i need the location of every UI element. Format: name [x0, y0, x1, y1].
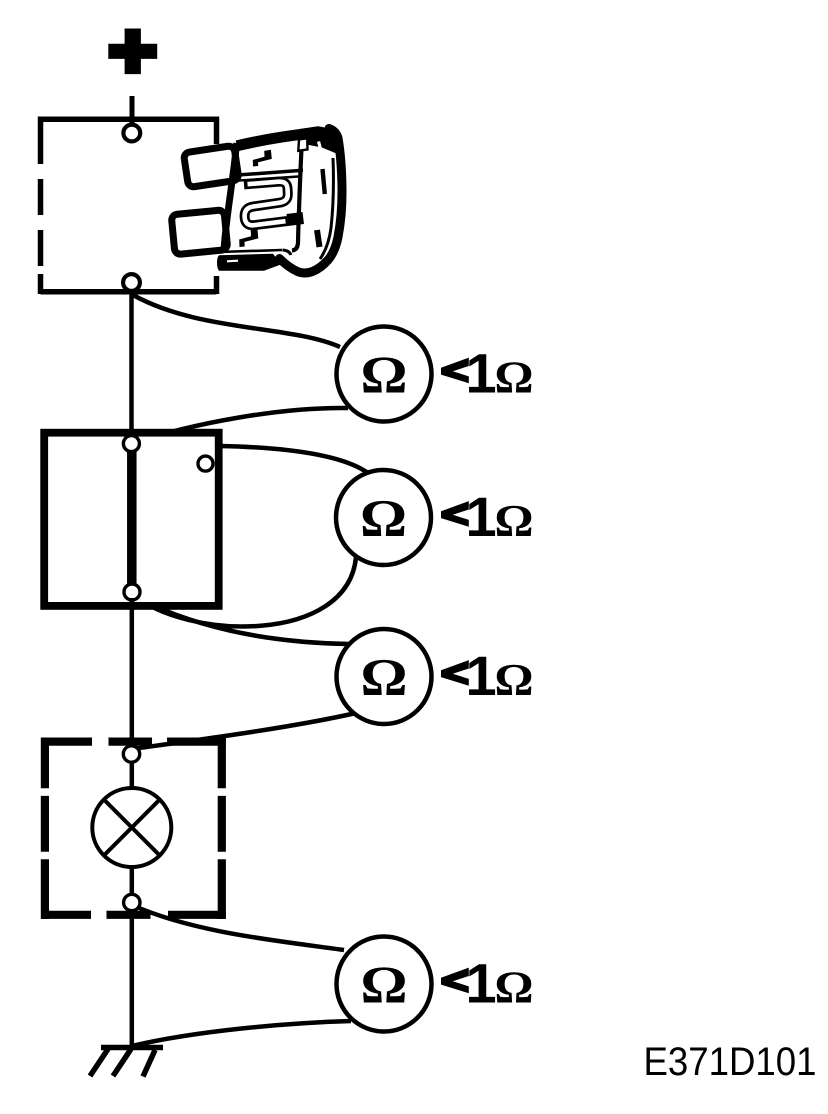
fuse illustration white underlay: [162, 121, 344, 288]
fuse box bottom edge: [41, 289, 217, 295]
switch auxiliary terminal circle: [198, 456, 213, 471]
fuse top cap band: [237, 133, 311, 146]
lamp bulb X diagonal 1: [104, 800, 160, 856]
test lead lamp-top to ohmmeter3: [132, 713, 356, 749]
fuse box right edge dashes: [214, 117, 220, 295]
fuse side lower dash: [317, 230, 320, 247]
fuse lower terminal block: [287, 212, 305, 226]
ohmmeter 4 circle: [337, 937, 432, 1032]
fuse top right corner blob: [299, 126, 342, 156]
switch contact bar: [127, 449, 137, 587]
wire fuse box to switch box: [129, 291, 134, 444]
fuse box top terminal circle: [123, 125, 140, 142]
test lead switch-top to ohmmeter2: [133, 445, 368, 473]
fuse lower terminal mark: [239, 228, 258, 247]
switch top terminal circle: [123, 436, 139, 452]
ohmmeter 3 circle: [337, 629, 432, 724]
svg-text:1: 1: [466, 951, 497, 1014]
fuse body bottom right corner tick: [283, 250, 291, 255]
fuse cap white notch: [298, 138, 307, 151]
wire from battery to fuse box: [130, 96, 135, 125]
lamp box (dashed) top edge: [41, 737, 226, 745]
fuse element outline: [244, 182, 288, 226]
lamp box bottom terminal circle: [124, 894, 140, 910]
fuse box (dashed) top edge: [41, 116, 217, 122]
label less-than sign 4: [441, 968, 469, 994]
label less-than sign 3: [441, 660, 469, 686]
svg-text:1: 1: [466, 644, 497, 707]
fuse upper boundary line 2: [232, 177, 299, 182]
wire terminal to lamp: [130, 762, 135, 790]
svg-text:Ω: Ω: [495, 654, 534, 705]
lamp box right edge: [218, 738, 226, 919]
lamp box top terminal circle: [123, 746, 139, 762]
ground symbol stroke 2: [113, 1049, 131, 1076]
lamp bulb X diagonal 2: [104, 800, 160, 856]
test lead switch-bottom to ohmmeter2: [133, 557, 356, 626]
fuse side inner line: [320, 158, 333, 259]
fuse upper boundary line 1: [231, 170, 303, 175]
fuse lower blade: [171, 210, 228, 255]
fuse box bottom terminal circle: [123, 274, 140, 291]
test lead lamp-bottom to ohmmeter4: [132, 905, 344, 950]
lamp bulb circle: [92, 788, 171, 867]
lamp box left edge: [41, 738, 49, 919]
fuse body right edge: [292, 148, 302, 251]
lamp box bottom edge: [41, 911, 226, 919]
svg-text:Ω: Ω: [361, 649, 408, 707]
test lead switch-top to ohmmeter1: [133, 408, 348, 443]
label less-than sign 1: [441, 358, 469, 384]
svg-text:Ω: Ω: [495, 961, 534, 1012]
wire switch box to lamp box: [130, 598, 135, 754]
label less-than sign 2: [441, 501, 469, 527]
ground symbol stroke 3: [143, 1050, 155, 1077]
svg-text:1: 1: [466, 485, 497, 548]
test lead switch-bottom to ohmmeter3: [133, 596, 349, 644]
fuse top terminal mark: [253, 150, 272, 167]
fuse body bottom edge: [219, 250, 282, 252]
wire lamp to terminal: [130, 866, 135, 895]
svg-text:1: 1: [466, 341, 497, 404]
test lead fuse-bottom to ohmmeter1: [133, 295, 340, 347]
switch bottom terminal circle: [124, 584, 140, 600]
ground symbol stroke 1: [90, 1049, 108, 1076]
fuse bottom band: [217, 254, 282, 271]
wire lamp box to ground: [130, 911, 135, 1048]
svg-text:E371D101: E371D101: [644, 1040, 817, 1084]
fuse right silhouette: [280, 129, 343, 274]
fuse corner white slit: [319, 142, 323, 155]
svg-text:Ω: Ω: [360, 490, 407, 548]
test lead ground to ohmmeter4: [132, 1021, 351, 1046]
svg-text:Ω: Ω: [495, 351, 534, 402]
fuse body left edge: [224, 143, 237, 253]
fuse element white channel: [245, 182, 288, 226]
battery positive terminal (+): [108, 29, 157, 75]
svg-text:Ω: Ω: [361, 957, 408, 1015]
fuse side slot: [323, 169, 325, 194]
ohmmeter 1 circle: [337, 327, 432, 422]
fuse bottom band white sliver: [227, 260, 238, 263]
switch box: [44, 433, 219, 606]
svg-text:Ω: Ω: [361, 347, 408, 405]
ohmmeter 2 circle: [336, 470, 431, 565]
fuse upper blade: [183, 145, 239, 187]
svg-text:Ω: Ω: [495, 495, 534, 546]
fuse box left edge dashes: [38, 117, 44, 295]
ground symbol bar: [101, 1045, 163, 1051]
